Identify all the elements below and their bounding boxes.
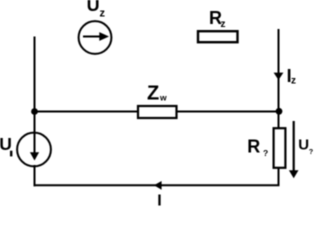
wire: right vertical top (free end down through node B to resistor) [278, 29, 280, 128]
wire: right vertical below resistor to bottom wire [278, 168, 280, 186]
label Iz [287, 66, 296, 86]
resistor R? (load, right branch) [274, 128, 286, 168]
svg-text:R: R [247, 136, 260, 156]
label R? [247, 136, 268, 158]
wire: left vertical below source U1 to bottom wire [34, 165, 36, 186]
resistor Rz (unconnected, top right) [198, 31, 238, 42]
svg-text:I: I [157, 192, 161, 207]
wire: middle horizontal from node A to Zw [35, 111, 140, 113]
svg-text:z: z [221, 19, 226, 30]
arrow I on bottom wire [154, 181, 162, 190]
svg-text:z: z [100, 7, 106, 19]
wire: middle horizontal from Zw to node B [176, 111, 280, 113]
label U? [298, 137, 313, 156]
wire: left vertical (top free end down through node A to source U1) [34, 37, 36, 135]
impedance Zw [138, 106, 177, 118]
label Rz [209, 8, 226, 30]
label Uz [87, 0, 106, 19]
svg-text:?: ? [263, 148, 268, 158]
svg-text:?: ? [309, 149, 313, 156]
node A junction dot [31, 108, 38, 115]
svg-text:Z: Z [147, 83, 159, 105]
arrow Iz on right wire [274, 73, 284, 80]
svg-text:U: U [87, 0, 100, 15]
arrow U2 (voltage arrow right of load) [289, 121, 299, 178]
source Uz (circle with right arrow, top left) [79, 21, 112, 54]
svg-text:z: z [291, 75, 296, 86]
label U1 [0, 134, 12, 156]
source U1 (circle with down arrow, left branch) [17, 133, 51, 167]
svg-text:w: w [159, 92, 167, 102]
node B junction dot [276, 108, 283, 115]
wire: bottom horizontal [34, 184, 280, 186]
label Zw [147, 83, 167, 105]
svg-text:U: U [298, 137, 309, 154]
